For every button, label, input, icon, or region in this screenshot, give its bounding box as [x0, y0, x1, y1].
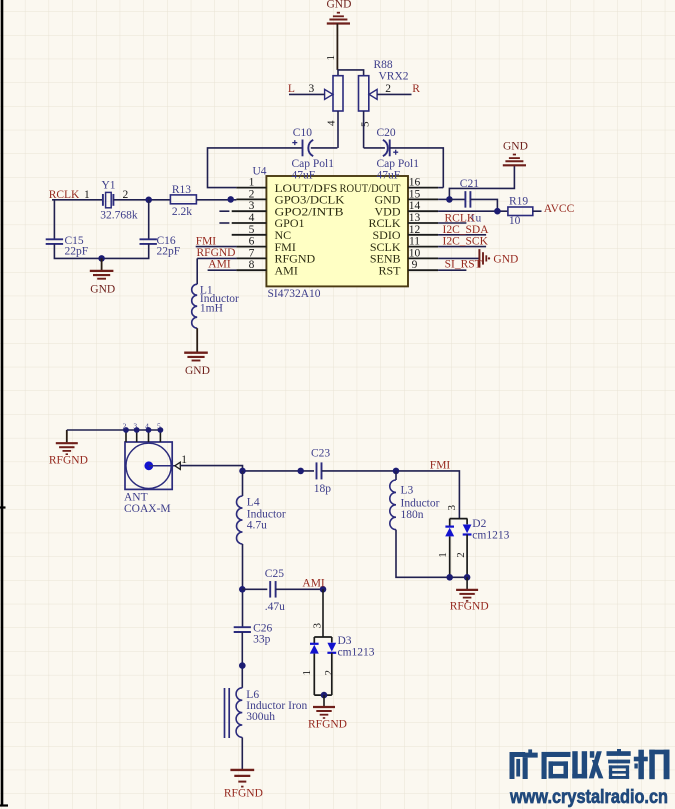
capacitor C20	[383, 140, 398, 157]
svg-text:cm1213: cm1213	[338, 646, 375, 658]
svg-text:.47u: .47u	[265, 601, 285, 613]
IC pin 7 stub	[236, 257, 266, 259]
svg-text:C23: C23	[311, 447, 330, 459]
power ground GND (top)	[327, 0, 352, 23]
svg-text:18p: 18p	[314, 483, 332, 495]
wire D3 leg1 upper	[313, 637, 315, 644]
IC pin 13 stub	[408, 222, 438, 224]
svg-text:Inductor: Inductor	[401, 497, 440, 509]
wire to GND (crystal)	[101, 258, 103, 270]
capacitor C21	[465, 191, 470, 208]
junction L3 top	[393, 468, 400, 475]
svg-text:L: L	[288, 83, 295, 95]
wire R88 left top	[337, 70, 339, 76]
sheet border	[1, 0, 4, 806]
svg-text:FMI: FMI	[196, 235, 217, 247]
diode D3 right (down)	[327, 643, 336, 653]
svg-text:13: 13	[409, 212, 421, 224]
wire junction to C21	[449, 198, 465, 200]
junction D3 bottom	[321, 692, 328, 699]
wire crystal bottom	[54, 244, 148, 259]
wire D3 leg1 lower	[313, 654, 315, 696]
capacitor C23	[317, 462, 322, 479]
wire FMI (pin6)	[196, 246, 237, 248]
wire C25 to AMI	[276, 588, 323, 590]
junction AMI	[320, 586, 327, 593]
wire C25 left	[242, 588, 267, 590]
wire GND riser (pin15 net)	[449, 165, 514, 199]
svg-text:C21: C21	[460, 178, 479, 190]
wire pin16 to C20 loop	[438, 187, 443, 189]
svg-text:SI4732A10: SI4732A10	[268, 288, 321, 300]
ground GND (L1)	[184, 353, 210, 377]
wire R to wiper	[377, 93, 411, 95]
wire D2 leg2 upper	[466, 519, 468, 525]
svg-text:FMI: FMI	[430, 459, 451, 471]
svg-text:C20: C20	[377, 127, 396, 139]
svg-text:2: 2	[455, 552, 467, 558]
junction on pin2 wire	[227, 196, 234, 203]
rf ground RFGND (ANT)	[49, 443, 88, 466]
sheet border zone tick	[0, 506, 6, 508]
svg-text:AMI: AMI	[302, 577, 325, 589]
wire D3 to RFGND	[323, 695, 325, 707]
diode D3 top bar	[314, 636, 332, 638]
svg-text:AVCC: AVCC	[544, 203, 575, 215]
svg-text:1: 1	[301, 670, 313, 676]
svg-text:3: 3	[249, 200, 255, 212]
svg-text:3: 3	[309, 83, 315, 95]
connector ANT body	[125, 442, 172, 489]
svg-text:RFGND: RFGND	[450, 601, 489, 613]
svg-text:RFGND: RFGND	[49, 454, 88, 466]
inductor L3	[390, 480, 396, 530]
wire C10 to R88 pin4	[311, 147, 338, 149]
no-connect dash pin3	[219, 210, 229, 212]
IC pin 10 stub	[408, 257, 438, 259]
svg-text:10: 10	[409, 247, 421, 259]
wire D2 leg1 upper	[449, 519, 451, 527]
junction mid	[297, 468, 304, 475]
wire C15 branch	[53, 200, 55, 240]
svg-text:L6: L6	[246, 689, 259, 701]
ANT shield pin 2	[123, 427, 129, 442]
wire pin7 down to L1	[196, 258, 198, 284]
svg-text:1: 1	[437, 552, 449, 558]
wire D2 leg1 lower	[449, 536, 451, 577]
wire L to wiper	[289, 93, 325, 95]
junction pin14	[494, 208, 501, 215]
svg-text:10: 10	[509, 215, 521, 227]
svg-text:1mH: 1mH	[200, 302, 223, 314]
svg-text:RST: RST	[378, 263, 401, 277]
svg-text:3: 3	[312, 623, 324, 629]
svg-text:Inductor: Inductor	[247, 508, 286, 520]
IC pin 4 stub	[232, 222, 267, 224]
resistor R19 body	[508, 207, 533, 216]
svg-text:4: 4	[326, 120, 338, 126]
IC pin 16 stub	[408, 187, 438, 189]
inductor L1	[192, 284, 198, 328]
wire AMI to D3	[322, 589, 324, 637]
resistor R13 body	[170, 195, 196, 204]
wire R88 pin5 down	[363, 111, 365, 148]
connector ANT center pin	[144, 461, 153, 470]
wire ANT to C23 junction	[180, 466, 314, 471]
pin 1 arrow (ANT)	[175, 462, 181, 469]
svg-text:RFGND: RFGND	[224, 787, 263, 799]
svg-text:1: 1	[249, 177, 255, 189]
svg-text:R19: R19	[509, 195, 528, 207]
svg-text:RFGND: RFGND	[197, 247, 236, 259]
svg-text:D3: D3	[338, 635, 352, 647]
svg-text:SI_RST: SI_RST	[445, 258, 482, 270]
svg-text:www.crystalradio.cn: www.crystalradio.cn	[509, 786, 668, 808]
IC U4 body	[266, 176, 408, 286]
svg-text:Y1: Y1	[102, 180, 116, 192]
resistor R88 body right	[359, 76, 369, 111]
wire junction to L4	[242, 471, 244, 496]
rf ground RFGND (D2)	[450, 590, 489, 613]
wire D2 to RFGND	[466, 577, 468, 589]
IC pin 15 stub	[408, 198, 438, 200]
wire pin1 loop to C10	[208, 148, 303, 188]
svg-text:9: 9	[412, 259, 418, 271]
wire GND to R88 pin1	[336, 24, 338, 70]
capacitor C16	[140, 239, 157, 244]
junction at GND stub	[98, 255, 105, 262]
wire L6 to RFGND	[241, 737, 243, 770]
svg-text:16: 16	[409, 177, 421, 189]
resistor R88 body left	[333, 76, 343, 111]
svg-text:1: 1	[181, 454, 187, 466]
IC pin 6 stub	[236, 246, 266, 248]
junction pin15	[446, 196, 453, 203]
junction C25 left	[239, 586, 246, 593]
inductor L4	[237, 496, 243, 544]
wire R19 to AVCC	[533, 210, 542, 212]
svg-text:22pF: 22pF	[65, 246, 89, 258]
ANT shield pin numbers	[123, 422, 161, 431]
diode D2 top bar	[450, 518, 468, 520]
svg-text:12: 12	[409, 224, 421, 236]
svg-text:GND: GND	[327, 0, 352, 11]
svg-text:COAX-M: COAX-M	[124, 503, 171, 515]
svg-text:3: 3	[446, 505, 458, 511]
wire C21 to pin14 net	[470, 199, 497, 211]
IC pin 8 stub	[236, 269, 266, 271]
wiper arrow right (pin 2)	[369, 89, 377, 99]
IC pin 2 stub	[236, 198, 266, 200]
IC pin 9 stub	[408, 269, 438, 271]
svg-text:15: 15	[409, 188, 421, 200]
wire R88 pin4 down	[337, 111, 339, 148]
svg-text:5: 5	[157, 422, 161, 431]
svg-text:AMI: AMI	[275, 263, 298, 277]
svg-text:VRX2: VRX2	[379, 71, 409, 83]
svg-text:14: 14	[409, 200, 421, 212]
svg-text:22pF: 22pF	[157, 246, 181, 258]
svg-text:33p: 33p	[253, 634, 271, 646]
svg-text:RCLK: RCLK	[445, 212, 476, 224]
iron core bars L6	[225, 688, 230, 738]
wire AMI (pin8)	[208, 269, 237, 271]
svg-text:GND: GND	[493, 254, 518, 266]
ANT shield pin 5	[158, 427, 164, 442]
svg-text:D2: D2	[472, 518, 486, 530]
wire RFGND stub (ANT)	[66, 430, 68, 442]
wire RFGND to ANT pins	[67, 429, 161, 431]
svg-text:GND: GND	[185, 365, 210, 377]
wire pin15 to junction	[438, 198, 449, 200]
wire C16 branch	[148, 200, 150, 240]
wire C26 to L6	[241, 632, 243, 688]
svg-text:I2C_SDA: I2C_SDA	[443, 224, 490, 236]
junction at C16 top	[145, 197, 152, 204]
svg-text:2: 2	[385, 83, 391, 95]
junction ANT/L4	[239, 468, 246, 475]
svg-text:L3: L3	[401, 485, 414, 497]
wire D2 leg2 lower	[466, 535, 468, 578]
wire junction to L3	[395, 471, 397, 480]
ANT shield pin 4	[146, 427, 152, 442]
ground GND (crystal)	[90, 271, 115, 296]
svg-text:RFGND: RFGND	[308, 719, 347, 731]
svg-text:1: 1	[325, 55, 337, 61]
capacitor C25	[270, 581, 275, 598]
svg-text:I2C_SCK: I2C_SCK	[443, 236, 489, 248]
svg-text:U4: U4	[253, 166, 267, 178]
IC pin 11 stub	[408, 246, 438, 248]
junction C26/L6	[239, 662, 246, 669]
capacitor C10	[292, 140, 313, 157]
svg-text:4.7u: 4.7u	[247, 520, 267, 532]
svg-text:8: 8	[249, 259, 255, 271]
diode D2 left (up)	[445, 527, 454, 537]
junction D2 leg1	[446, 574, 453, 581]
svg-text:2: 2	[323, 670, 335, 676]
svg-text:32.768k: 32.768k	[100, 210, 138, 222]
svg-text:C25: C25	[265, 568, 284, 580]
svg-text:11: 11	[409, 236, 420, 248]
svg-text:cm1213: cm1213	[472, 529, 509, 541]
wire SENB to GND (pin10)	[438, 257, 479, 259]
svg-text:5: 5	[249, 224, 255, 236]
svg-text:C10: C10	[293, 127, 312, 139]
svg-text:Cap Pol1: Cap Pol1	[292, 158, 335, 170]
svg-text:3: 3	[133, 422, 137, 431]
wire R88 top	[337, 70, 363, 76]
svg-text:R13: R13	[172, 184, 191, 196]
wire L1 to GND	[196, 328, 198, 352]
IC pin 12 stub	[408, 234, 438, 236]
sheet border foot	[0, 804, 8, 806]
wire RCLK (pin13)	[438, 222, 466, 224]
wire C23 to FMI corner	[322, 471, 460, 519]
wire L3 to D2 bottom	[396, 530, 467, 578]
wire RFGND (pin7)	[197, 257, 236, 259]
capacitor C15	[46, 239, 63, 244]
svg-text:GND: GND	[90, 284, 115, 296]
svg-text:GND: GND	[503, 141, 528, 153]
power ground GND (right)	[503, 141, 528, 166]
connector ANT circle	[126, 443, 171, 488]
rf ground RFGND (D3)	[308, 707, 347, 731]
wire R13 to IC pin2	[196, 199, 236, 201]
svg-text:4: 4	[249, 212, 255, 224]
wire SI_RST (pin9)	[438, 269, 466, 271]
wire pin14 to R19	[438, 210, 508, 212]
svg-text:Cap Pol1: Cap Pol1	[377, 158, 420, 170]
wiper arrow left (pin 3)	[325, 89, 333, 99]
wire RCLK to Y1	[52, 199, 103, 201]
junction D2 leg2	[464, 574, 471, 581]
svg-text:180n: 180n	[401, 509, 424, 521]
inductor L6	[236, 688, 242, 738]
capacitor C26	[234, 627, 251, 632]
wire C20 to pin16 loop	[390, 148, 444, 188]
ANT shield pin 3	[134, 427, 140, 442]
wire Y1 to R13	[113, 199, 170, 201]
no-connect dash pin4	[219, 222, 229, 224]
svg-text:ANT: ANT	[124, 491, 148, 503]
svg-text:6: 6	[249, 236, 255, 248]
wire R88 pin5 to C20	[364, 147, 385, 149]
svg-text:L4: L4	[247, 496, 260, 508]
svg-text:4: 4	[145, 422, 149, 431]
svg-text:7: 7	[249, 247, 255, 259]
svg-text:R: R	[412, 83, 420, 95]
svg-text:AMI: AMI	[208, 258, 231, 270]
svg-text:2.2k: 2.2k	[172, 206, 192, 218]
rf ground RFGND (L6)	[224, 770, 263, 800]
diode D2 right (down)	[463, 525, 472, 535]
IC pin 5 stub	[232, 234, 267, 236]
svg-text:R88: R88	[374, 59, 393, 71]
wire L4 to C25 junction	[242, 544, 244, 627]
svg-text:47uF: 47uF	[377, 169, 401, 181]
wire D3 leg2 upper	[331, 637, 333, 643]
crystal Y1	[103, 192, 114, 207]
svg-text:300uh: 300uh	[246, 711, 275, 723]
connector ANT pin line	[149, 465, 175, 467]
IC pin 1 stub	[236, 187, 266, 189]
svg-text:5: 5	[359, 121, 371, 127]
diode D3 left (up)	[310, 644, 319, 654]
wire D3 leg2 lower	[331, 653, 333, 695]
watermark chinese text	[510, 749, 670, 779]
IC pin 14 stub	[408, 210, 438, 212]
svg-text:47uF: 47uF	[292, 169, 316, 181]
diode D3 bottom bar	[314, 694, 332, 696]
IC pin 3 stub	[232, 210, 267, 212]
wire I2C_SDA (pin12)	[438, 234, 486, 236]
svg-text:C26: C26	[253, 622, 272, 634]
wire I2C_SCK (pin11)	[438, 246, 486, 248]
rotated ground GND (pin10)	[479, 249, 518, 268]
svg-text:2: 2	[249, 188, 255, 200]
svg-text:2: 2	[123, 422, 127, 431]
